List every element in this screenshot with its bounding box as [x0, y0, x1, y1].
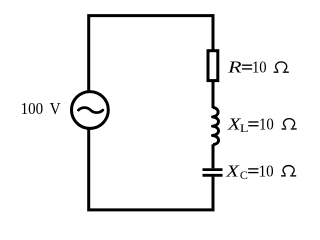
svg-text:100: 100	[21, 99, 43, 118]
svg-text:10: 10	[259, 115, 274, 134]
svg-text:10: 10	[252, 58, 267, 77]
svg-text:X: X	[225, 161, 241, 180]
svg-text:C: C	[240, 170, 248, 182]
svg-text:V: V	[50, 99, 61, 118]
svg-text:10: 10	[259, 161, 274, 180]
svg-text:R: R	[227, 58, 242, 77]
svg-text:L: L	[240, 123, 249, 135]
